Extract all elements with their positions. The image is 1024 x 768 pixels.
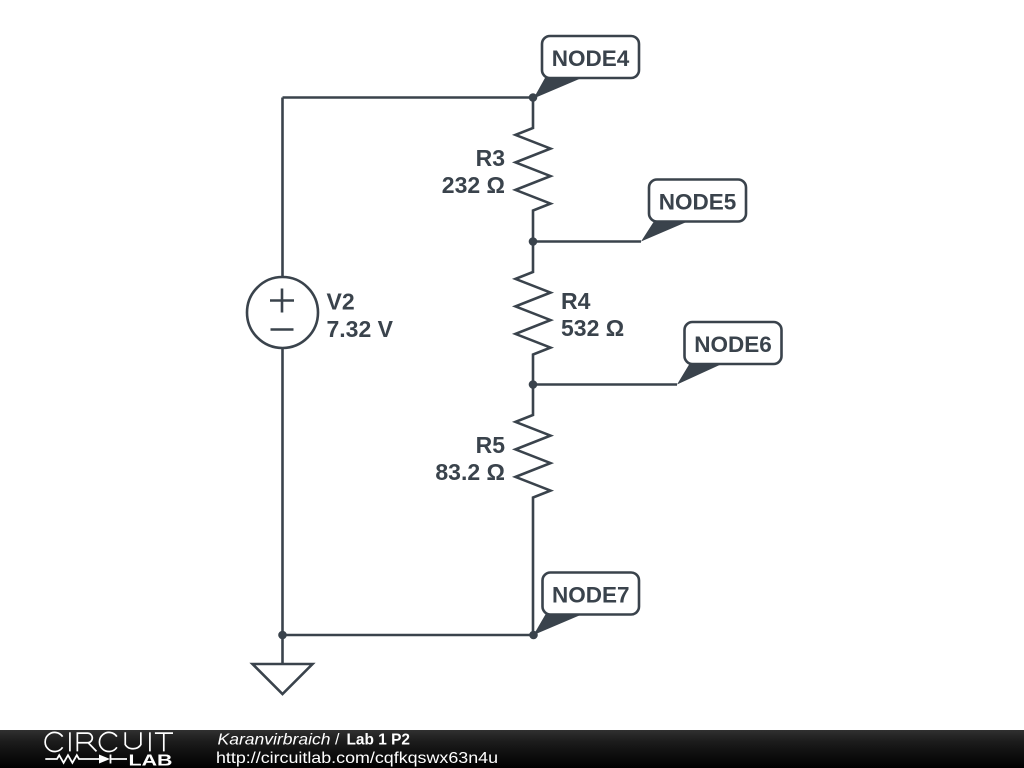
wire stub to NODE5 flag	[533, 240, 641, 243]
junction dot node NODE4	[529, 93, 538, 102]
svg-text:Karanvirbraich: Karanvirbraich	[218, 731, 331, 748]
svg-text:NODE4: NODE4	[552, 46, 630, 71]
flag tail NODE6	[677, 363, 724, 385]
svg-text:R4: R4	[561, 288, 591, 314]
junction dot node NODE5	[529, 237, 538, 246]
flag box NODE7	[543, 573, 640, 615]
footer bar	[0, 730, 1024, 768]
ground symbol wire stub	[281, 635, 284, 664]
svg-text:LAB: LAB	[129, 752, 173, 768]
flag tail NODE5	[641, 221, 690, 242]
svg-text:R3: R3	[476, 145, 505, 171]
CircuitLab logo CIRCUIT wordmark	[45, 732, 173, 751]
wire top horizontal from V2 top to NODE4	[283, 96, 534, 99]
voltage source V2 circle body	[247, 277, 318, 348]
flag box NODE5	[649, 180, 746, 222]
svg-text:83.2 Ω: 83.2 Ω	[435, 459, 505, 485]
junction dot node NODE6	[529, 380, 538, 389]
wire bottom horizontal from ground corner to NODE7	[283, 634, 534, 637]
wire left vertical lower (V2 minus terminal to bottom rail)	[281, 348, 284, 635]
flag tail NODE7	[534, 614, 585, 636]
resistor R4 zigzag	[516, 242, 551, 385]
svg-text:Lab 1 P2: Lab 1 P2	[347, 731, 411, 748]
resistor R5 zigzag	[516, 385, 551, 636]
svg-text:NODE6: NODE6	[694, 332, 772, 357]
CircuitLab logo diode triangle	[99, 755, 110, 764]
svg-text:7.32 V: 7.32 V	[327, 316, 394, 342]
svg-text:NODE5: NODE5	[659, 190, 737, 215]
svg-text:/: /	[335, 731, 340, 748]
voltage source V2 plus sign	[270, 289, 294, 313]
svg-text:532 Ω: 532 Ω	[561, 315, 624, 341]
voltage source V2 minus sign	[271, 328, 294, 331]
ground symbol triangle	[253, 664, 313, 694]
svg-text:V2: V2	[327, 288, 355, 314]
svg-text:NODE7: NODE7	[552, 583, 630, 608]
svg-text:http://circuitlab.com/cqfkqswx: http://circuitlab.com/cqfkqswx63n4u	[216, 750, 498, 767]
resistor R3 zigzag	[516, 98, 551, 242]
flag box NODE4	[542, 36, 639, 78]
junction dot node NODE7	[529, 631, 538, 640]
wire stub to NODE6 flag	[533, 383, 677, 386]
svg-text:232 Ω: 232 Ω	[442, 172, 505, 198]
flag tail NODE4	[534, 77, 585, 99]
CircuitLab logo diode bar and wire	[111, 755, 128, 764]
wire left vertical upper (NODE4 rail to V2 plus terminal)	[281, 98, 284, 278]
junction dot bottom-left ground corner	[278, 631, 287, 640]
flag box NODE6	[685, 322, 782, 364]
CircuitLab logo resistor wire	[45, 755, 99, 763]
svg-text:R5: R5	[476, 432, 506, 458]
